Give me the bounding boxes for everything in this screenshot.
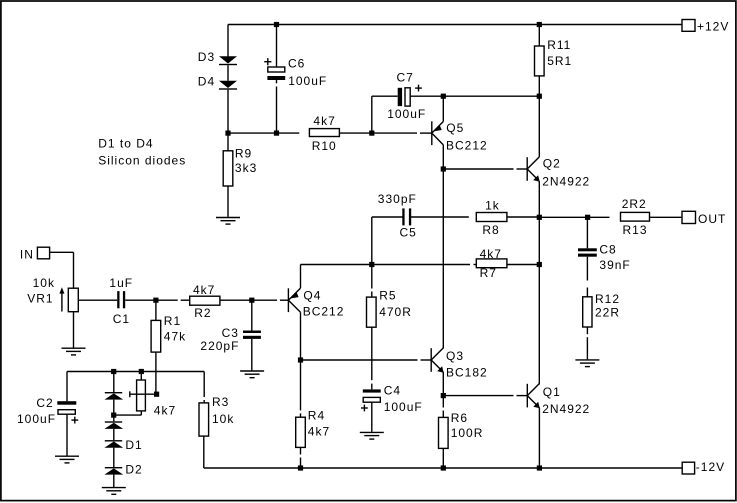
wire C5 left down to R7 node xyxy=(371,217,373,265)
wire preset bottom to diode node xyxy=(114,414,142,416)
diode D4 xyxy=(219,81,237,90)
terminal -12V xyxy=(682,462,694,474)
wire R9 to ground xyxy=(227,186,229,217)
resistor R1 47k xyxy=(151,320,161,352)
wire R10 to Q5 base xyxy=(339,132,417,134)
resistor R5 470R xyxy=(367,297,377,327)
svg-text:R12: R12 xyxy=(595,292,620,306)
capacitor C1 1uF xyxy=(117,291,125,308)
wire IN to corner xyxy=(50,251,74,253)
terminal IN xyxy=(37,247,49,259)
wire node down to R1 xyxy=(155,300,157,320)
wire R13 to OUT xyxy=(650,216,683,218)
diode D2 xyxy=(104,467,123,475)
node dot bottom rail R4 xyxy=(298,465,303,470)
svg-text:-12V: -12V xyxy=(696,460,725,474)
wire R11 to node xyxy=(538,76,540,96)
ground below VR1 xyxy=(62,348,86,355)
svg-text:1uF: 1uF xyxy=(109,276,133,290)
wire rail to C6 xyxy=(276,25,278,67)
svg-text:OUT: OUT xyxy=(698,212,726,226)
wire Q1 emitter to bottom rail xyxy=(538,408,540,468)
svg-text:Q4: Q4 xyxy=(303,288,321,302)
wire Q2 collector up xyxy=(538,96,540,157)
resistor R6 100R xyxy=(439,417,449,448)
wire rail to C2 xyxy=(66,372,68,402)
wire bias node horizontal xyxy=(228,132,299,134)
svg-text:Q2: Q2 xyxy=(543,157,561,171)
node dot Q4 collector Q3 base xyxy=(298,357,303,362)
wire to C7 xyxy=(372,95,398,97)
node dot preset bottom diode chain xyxy=(111,413,116,418)
svg-text:4k7: 4k7 xyxy=(193,283,215,297)
wire rail to diode chain xyxy=(113,371,115,392)
svg-text:100uF: 100uF xyxy=(17,412,56,426)
svg-text:R1: R1 xyxy=(164,314,181,328)
wire Q4 collector down xyxy=(300,312,302,360)
svg-text:R5: R5 xyxy=(379,289,396,303)
wire R12 to ground xyxy=(586,327,588,334)
svg-text:C4: C4 xyxy=(384,383,401,397)
svg-text:C6: C6 xyxy=(288,57,305,71)
wire Q5 collector down to Q3 collector xyxy=(442,145,444,349)
wire C8 to R12 xyxy=(586,257,588,281)
wire R7 row from Q4 emitter xyxy=(301,264,471,266)
ground below R9 xyxy=(216,218,240,225)
node dot bottom rail Q1 xyxy=(537,465,542,470)
resistor R13 2R2 xyxy=(621,212,650,221)
wire Q2 base xyxy=(443,168,513,170)
resistor R7 4k7 xyxy=(476,259,507,268)
svg-text:Q5: Q5 xyxy=(446,121,464,135)
transistor Q4 BC212 xyxy=(288,288,300,312)
node dot bias D4 xyxy=(225,131,230,136)
svg-text:100R: 100R xyxy=(451,426,484,440)
svg-text:22R: 22R xyxy=(595,305,620,319)
wire node up to C7 row xyxy=(371,96,373,133)
wire VR1 wiper to C1 xyxy=(79,299,118,301)
wire diode to tap node xyxy=(113,400,115,416)
wire Q4 emitter up to R7 row xyxy=(300,265,302,289)
diode D1 xyxy=(104,440,123,448)
wire D2 to ground xyxy=(113,475,115,488)
wire R5 top xyxy=(371,265,373,289)
capacitor C8 39nF xyxy=(578,248,597,256)
capacitor C2 100uF xyxy=(57,401,78,423)
svg-text:10k: 10k xyxy=(33,276,55,290)
ground below diode chain xyxy=(102,488,126,495)
wire output row to R13 xyxy=(539,216,609,218)
transistor Q2 2N4922 xyxy=(527,157,540,182)
wire C5 to R8 xyxy=(411,216,469,218)
node dot C1 R1 xyxy=(153,298,158,303)
wire R8 to output node xyxy=(507,216,539,218)
svg-text:C5: C5 xyxy=(400,225,417,239)
wire C7 node to R11 node xyxy=(443,95,539,97)
wire Q2 emitter down / output column xyxy=(538,181,540,384)
wire C2 to ground xyxy=(66,414,68,456)
wire C5 left xyxy=(372,216,403,218)
svg-text:2R2: 2R2 xyxy=(622,197,647,211)
node dot Q3 emitter R6 xyxy=(441,393,446,398)
wire R3 to bottom rail xyxy=(203,436,205,468)
wire rail corner to R3 xyxy=(203,372,205,398)
svg-text:BC212: BC212 xyxy=(303,305,345,319)
wire preset bottom xyxy=(140,411,142,415)
resistor R10 4k7 xyxy=(309,129,339,137)
wire Q3 base row xyxy=(301,359,418,361)
diode chain top diode xyxy=(104,392,123,400)
svg-text:470R: 470R xyxy=(379,305,412,319)
svg-text:R3: R3 xyxy=(212,395,229,409)
svg-text:Silicon diodes: Silicon diodes xyxy=(98,153,186,167)
wire top +12V rail xyxy=(228,24,682,26)
node dot preset wiper R1 xyxy=(154,392,159,397)
wire R6 top xyxy=(442,396,444,408)
transistor Q5 BC212 xyxy=(432,121,444,145)
resistor R3 10k xyxy=(199,403,209,436)
svg-text:R8: R8 xyxy=(482,223,499,237)
svg-text:4k7: 4k7 xyxy=(480,247,502,261)
svg-text:3k3: 3k3 xyxy=(235,161,257,175)
terminal OUT xyxy=(682,211,696,223)
svg-text:C8: C8 xyxy=(599,243,616,257)
capacitor C7 100uF xyxy=(398,85,422,106)
node dot R7 row right xyxy=(537,262,542,267)
node dot R2 C3 xyxy=(249,298,254,303)
wire bias rail bottom left xyxy=(67,371,204,373)
svg-text:R11: R11 xyxy=(547,38,571,52)
svg-text:R9: R9 xyxy=(235,146,252,160)
svg-text:220pF: 220pF xyxy=(200,339,239,353)
svg-text:4k7: 4k7 xyxy=(313,114,335,128)
node dot output C8 xyxy=(585,215,590,220)
svg-text:330pF: 330pF xyxy=(378,192,417,206)
wire D1 to D2 xyxy=(113,448,115,467)
capacitor C3 220pF xyxy=(243,331,261,339)
resistor R9 3k3 xyxy=(223,151,233,186)
svg-text:D2: D2 xyxy=(125,462,142,476)
capacitor C5 330pF xyxy=(402,208,411,225)
wire R7 to output column xyxy=(507,264,539,266)
wire C3 node to Q4 base xyxy=(252,299,277,301)
wire R6 to bottom rail xyxy=(442,448,444,468)
svg-text:4k7: 4k7 xyxy=(154,404,176,418)
wire C7 to node xyxy=(410,95,443,97)
wire C4 to ground xyxy=(371,402,373,432)
wire to D1 xyxy=(113,429,115,440)
transistor Q3 BC182 xyxy=(431,348,444,373)
diode D3 xyxy=(219,56,237,65)
ground below C3 xyxy=(240,371,264,378)
node dot rail C6 xyxy=(274,22,279,27)
svg-text:R10: R10 xyxy=(312,139,337,153)
capacitor C6 100uF xyxy=(264,58,285,80)
svg-text:39nF: 39nF xyxy=(599,258,630,272)
wire Q3 emitter down xyxy=(442,372,444,396)
wire Q4 collector node to R4 xyxy=(300,360,302,410)
node dot bias rail preset xyxy=(139,369,144,374)
svg-text:Q1: Q1 xyxy=(543,385,561,399)
svg-text:C2: C2 xyxy=(36,396,53,410)
svg-text:D4: D4 xyxy=(198,75,215,89)
svg-text:C1: C1 xyxy=(113,312,130,326)
svg-text:IN: IN xyxy=(20,248,34,262)
resistor R11 5R1 xyxy=(535,46,545,76)
wire C1 to R1 node xyxy=(125,299,156,301)
resistor R12 22R xyxy=(583,297,592,327)
svg-text:D1: D1 xyxy=(125,438,142,452)
svg-text:R13: R13 xyxy=(623,223,648,237)
node dot output Q2 emitter xyxy=(537,215,542,220)
resistor R4 4k7 xyxy=(296,417,306,447)
ground below C4 xyxy=(360,432,384,439)
wire R4 to bottom rail xyxy=(300,447,302,454)
svg-text:R4: R4 xyxy=(308,409,325,423)
svg-text:5R1: 5R1 xyxy=(547,54,572,68)
svg-text:2N4922: 2N4922 xyxy=(542,402,590,416)
node dot bias C6 xyxy=(274,131,279,136)
wire R2 to C3 node xyxy=(220,299,252,301)
node dot R11 bottom xyxy=(537,94,542,99)
wire C3 to ground xyxy=(251,339,253,371)
svg-text:R2: R2 xyxy=(194,306,211,320)
node dot Q2 base xyxy=(441,166,446,171)
wire rail to R11 xyxy=(538,25,540,47)
terminal +12V xyxy=(682,20,695,32)
resistor R8 1k xyxy=(476,213,507,222)
svg-text:100uF: 100uF xyxy=(384,400,423,414)
wire R1 to preset wiper xyxy=(155,352,157,394)
wire corner down to VR1 xyxy=(73,252,75,288)
svg-text:47k: 47k xyxy=(164,329,186,343)
wire C3 node down xyxy=(251,300,253,330)
svg-text:R6: R6 xyxy=(451,411,468,425)
node dot R7 row left xyxy=(369,262,374,267)
resistor R2 4k7 xyxy=(190,296,220,305)
wire D4 to bias node xyxy=(227,90,229,133)
wire bottom rail xyxy=(204,467,682,469)
diode chain second diode xyxy=(104,421,123,429)
transistor Q1 2N4922 xyxy=(527,384,540,409)
wire R5 to C4 xyxy=(371,327,373,380)
svg-text:C7: C7 xyxy=(397,70,414,84)
svg-text:BC182: BC182 xyxy=(446,365,488,379)
svg-text:D3: D3 xyxy=(198,50,215,64)
node dot bottom rail R6 xyxy=(441,465,446,470)
svg-text:R7: R7 xyxy=(480,266,497,280)
capacitor C4 100uF xyxy=(361,389,381,411)
svg-text:Q3: Q3 xyxy=(446,349,464,363)
node dot bias R10 xyxy=(369,131,374,136)
svg-text:C3: C3 xyxy=(222,326,239,340)
potentiometer VR1 10k xyxy=(59,287,78,312)
svg-text:D1 to D4: D1 to D4 xyxy=(98,136,153,150)
wire VR1 to ground xyxy=(73,312,75,349)
svg-text:+12V: +12V xyxy=(697,20,729,34)
wire Q5 emitter up xyxy=(442,96,444,121)
svg-text:2N4922: 2N4922 xyxy=(542,174,590,188)
wire C6 to bias node xyxy=(276,80,278,83)
wire output node to C8 xyxy=(586,217,588,248)
wire rail to preset xyxy=(140,372,142,381)
wire node to R2 xyxy=(156,299,178,301)
ground below R12 xyxy=(575,360,599,367)
node dot bias rail diode chain xyxy=(111,369,116,374)
wire D3 to D4 xyxy=(227,65,229,81)
ground below C2 xyxy=(55,456,79,463)
wire tap node to second diode xyxy=(113,415,115,421)
svg-text:1k: 1k xyxy=(485,198,500,212)
svg-text:4k7: 4k7 xyxy=(308,425,330,439)
wire Q1 base row xyxy=(443,395,513,397)
svg-text:100uF: 100uF xyxy=(288,74,327,88)
wire rail to D3 xyxy=(227,25,229,57)
svg-text:VR1: VR1 xyxy=(27,292,53,306)
svg-text:100uF: 100uF xyxy=(387,107,426,121)
svg-text:BC212: BC212 xyxy=(446,139,488,153)
wire R9 top xyxy=(227,133,229,151)
svg-text:10k: 10k xyxy=(212,412,234,426)
preset resistor 4k7 xyxy=(130,380,157,411)
node dot C7 right xyxy=(441,94,446,99)
node dot rail R11 xyxy=(537,22,542,27)
